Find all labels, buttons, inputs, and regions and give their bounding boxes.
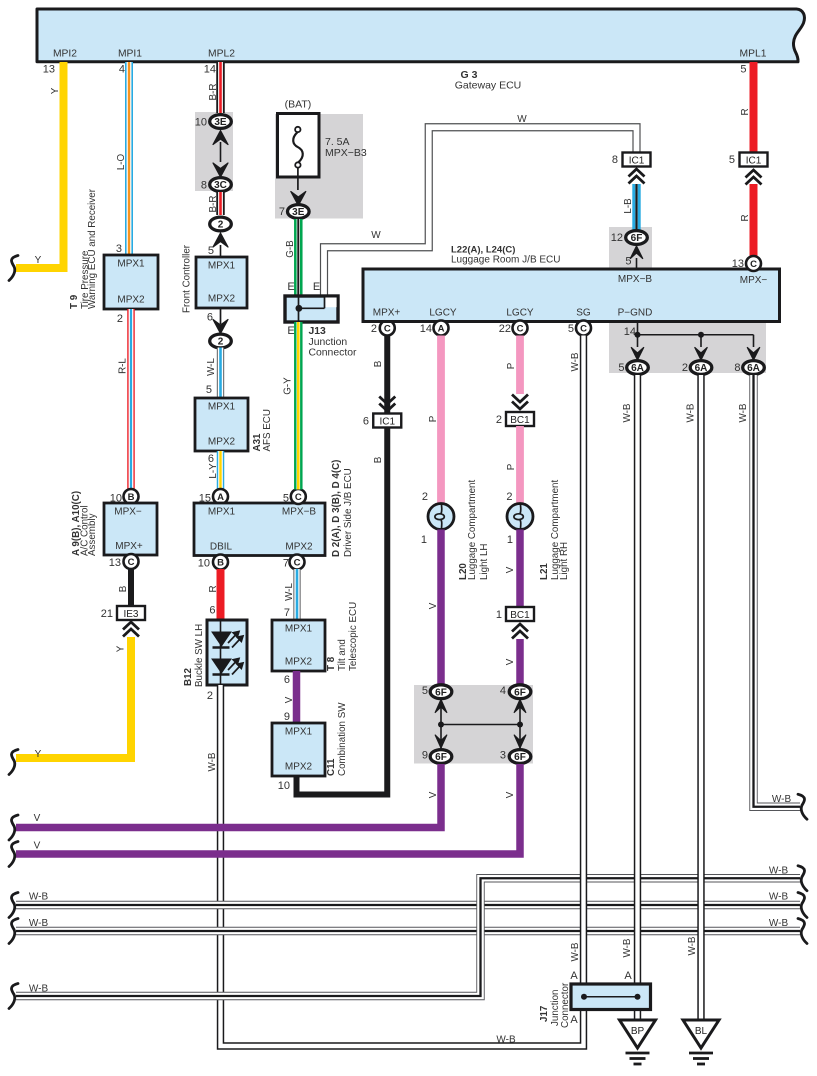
wire from fuse to connector 3E pin7 bbox=[297, 168, 299, 191]
wire R from G3 MPL1 pin5 to IC1 pin5 bbox=[750, 62, 758, 153]
lamp L20 Luggage Compartment Light LH bbox=[428, 504, 454, 530]
svg-text:2: 2 bbox=[371, 323, 377, 335]
svg-text:5: 5 bbox=[568, 323, 574, 335]
svg-text:SG: SG bbox=[576, 308, 591, 319]
svg-text:W-B: W-B bbox=[570, 942, 581, 961]
svg-text:R: R bbox=[208, 585, 219, 592]
svg-text:Luggage Room J/B ECU: Luggage Room J/B ECU bbox=[451, 255, 561, 266]
svg-text:BP: BP bbox=[631, 1026, 645, 1037]
wire W-B horizontal lower S-route bbox=[16, 878, 800, 996]
svg-text:5: 5 bbox=[283, 493, 289, 505]
svg-text:Luggage Compartment: Luggage Compartment bbox=[467, 480, 478, 580]
wire V from L21 to BC1 pin1 bbox=[516, 530, 524, 608]
svg-text:V: V bbox=[34, 841, 41, 852]
svg-text:C11: C11 bbox=[326, 758, 337, 776]
svg-text:MPX2: MPX2 bbox=[285, 542, 313, 553]
svg-text:V: V bbox=[284, 696, 295, 703]
svg-text:Assembly: Assembly bbox=[87, 513, 98, 556]
svg-text:J13: J13 bbox=[309, 326, 327, 337]
svg-text:B: B bbox=[217, 558, 224, 569]
svg-text:MPX2: MPX2 bbox=[208, 294, 236, 305]
svg-text:5: 5 bbox=[422, 685, 428, 697]
wire W-B from B12 pin2 to J17 bbox=[221, 685, 584, 1046]
svg-text:W-B: W-B bbox=[769, 892, 789, 903]
svg-text:IE3: IE3 bbox=[123, 609, 138, 620]
svg-text:10: 10 bbox=[198, 558, 210, 570]
svg-text:W-B: W-B bbox=[687, 936, 698, 955]
wire R from Driver Side J/B pin10 to B12 pin6 bbox=[217, 569, 225, 620]
svg-text:6A: 6A bbox=[695, 363, 708, 374]
svg-text:5: 5 bbox=[729, 154, 735, 166]
svg-text:V: V bbox=[505, 658, 516, 665]
svg-text:Telescopic ECU: Telescopic ECU bbox=[348, 602, 359, 671]
svg-text:Combination SW: Combination SW bbox=[337, 702, 348, 776]
wire B-R from G3 MPL2 pin14 to connector 3E bbox=[216, 62, 225, 113]
ground BP bbox=[620, 1020, 656, 1048]
wire L-Y from AFS ECU pin6 to Driver Side J/B pin15 bbox=[217, 451, 225, 490]
svg-text:P−GND: P−GND bbox=[618, 308, 653, 319]
svg-text:MPX+: MPX+ bbox=[373, 308, 401, 319]
svg-text:10: 10 bbox=[278, 780, 290, 792]
svg-text:W-B: W-B bbox=[686, 403, 697, 422]
svg-text:W-B: W-B bbox=[496, 1035, 516, 1046]
svg-text:Tilt and: Tilt and bbox=[337, 639, 348, 671]
arrow into connector 2 bbox=[213, 233, 228, 247]
lamp L21 Luggage Compartment Light RH bbox=[507, 504, 533, 530]
svg-text:Junction: Junction bbox=[309, 337, 348, 348]
svg-text:21: 21 bbox=[101, 608, 113, 620]
svg-text:5: 5 bbox=[206, 384, 212, 396]
wire W-B from 6A pin8 to right edge bbox=[754, 375, 801, 807]
svg-text:5: 5 bbox=[740, 64, 746, 76]
svg-text:MPX2: MPX2 bbox=[208, 437, 236, 448]
svg-text:7: 7 bbox=[283, 558, 289, 570]
svg-text:13: 13 bbox=[109, 557, 121, 569]
wire B-R from 3C to connector 2 bbox=[216, 192, 225, 215]
wire V horizontal to L20 chain bbox=[16, 764, 441, 828]
wire B from A/C pin13 to IE3 bbox=[128, 569, 134, 607]
svg-text:B-R: B-R bbox=[208, 84, 219, 101]
svg-text:Light LH: Light LH bbox=[479, 544, 490, 581]
svg-text:6: 6 bbox=[284, 674, 290, 686]
svg-text:2: 2 bbox=[506, 491, 512, 503]
svg-text:W: W bbox=[517, 114, 527, 125]
ECU G3 Gateway ECU top bar bbox=[37, 9, 804, 62]
svg-text:2: 2 bbox=[117, 313, 123, 325]
svg-text:C: C bbox=[128, 557, 135, 568]
svg-text:W-B: W-B bbox=[29, 918, 49, 929]
svg-text:V: V bbox=[505, 566, 516, 573]
svg-text:B: B bbox=[128, 492, 135, 503]
svg-text:3C: 3C bbox=[214, 180, 227, 191]
svg-text:G-Y: G-Y bbox=[283, 377, 294, 395]
arrow into IC1 pin8 bbox=[629, 169, 645, 177]
svg-text:3: 3 bbox=[500, 750, 506, 762]
wire G-B from 3E to J13 bbox=[294, 219, 303, 296]
svg-text:L-B: L-B bbox=[623, 198, 634, 214]
wire W-L from connector 2 to AFS ECU pin5 bbox=[217, 348, 224, 399]
svg-text:T 8: T 8 bbox=[326, 656, 337, 671]
svg-text:W-B: W-B bbox=[29, 984, 49, 995]
svg-text:W-B: W-B bbox=[772, 794, 792, 805]
gray highlight area behind connector 6F pin12 bbox=[609, 227, 652, 269]
wire W-B from 6A pin2 to BL ground bbox=[697, 375, 704, 1020]
fuse 7.5A MPX-B3 bbox=[278, 114, 320, 178]
ECU T8 Tilt and Telescopic ECU bbox=[272, 620, 325, 671]
wire W-B horizontal upper bbox=[16, 901, 800, 909]
svg-text:14: 14 bbox=[420, 323, 432, 335]
svg-text:V: V bbox=[428, 602, 439, 609]
svg-text:C: C bbox=[295, 492, 302, 503]
svg-text:MPX2: MPX2 bbox=[117, 295, 145, 306]
ECU L22(A) L24(C) Luggage Room J/B ECU bbox=[363, 269, 780, 322]
arrow into IC1 pin5 bbox=[746, 170, 762, 178]
svg-text:V: V bbox=[34, 813, 41, 824]
arrow into 6A pin5 bbox=[631, 348, 643, 361]
svg-text:7: 7 bbox=[279, 206, 285, 218]
svg-text:Buckle SW LH: Buckle SW LH bbox=[194, 624, 205, 687]
wire V from T8 pin6 to C11 pin9 bbox=[293, 671, 301, 723]
svg-text:MPL1: MPL1 bbox=[740, 49, 767, 60]
svg-text:W-B: W-B bbox=[622, 403, 633, 422]
svg-text:B: B bbox=[373, 360, 384, 367]
svg-text:2: 2 bbox=[218, 337, 224, 348]
svg-text:6: 6 bbox=[209, 605, 215, 617]
arrow into IE3 bbox=[123, 622, 139, 630]
svg-text:6F: 6F bbox=[435, 752, 447, 763]
svg-text:6F: 6F bbox=[514, 687, 526, 698]
wire V from L20 to connector 6F pin5 bbox=[437, 530, 445, 688]
svg-text:W-B: W-B bbox=[769, 918, 789, 929]
svg-text:B: B bbox=[373, 456, 384, 463]
svg-text:A: A bbox=[438, 324, 445, 335]
wire G-Y from J13 to Driver Side J/B pin5 bbox=[294, 322, 303, 490]
svg-text:IC1: IC1 bbox=[746, 155, 762, 166]
svg-text:10: 10 bbox=[195, 117, 207, 129]
svg-text:P: P bbox=[428, 415, 439, 422]
ECU A31 AFS ECU bbox=[195, 398, 248, 451]
svg-text:MPI2: MPI2 bbox=[53, 49, 77, 60]
svg-text:6: 6 bbox=[207, 312, 213, 324]
svg-text:C: C bbox=[580, 324, 587, 335]
wire L-O from G3 MPI1 pin4 to T9 pin3 bbox=[125, 62, 133, 255]
svg-text:6F: 6F bbox=[435, 687, 447, 698]
wire V from BC1 to connector 6F pin4 bbox=[516, 639, 524, 687]
svg-text:13: 13 bbox=[732, 258, 744, 270]
svg-text:P: P bbox=[506, 463, 517, 470]
wire L-B from connector 6F to IC1 pin8 bbox=[632, 184, 640, 230]
ECU D2(A) D3(B) D4(C) Driver Side J/B ECU bbox=[194, 503, 325, 556]
wire R-L from T9 pin2 to A/C Control pin10 bbox=[127, 309, 135, 490]
arrow junction 3E to 3C bbox=[213, 131, 228, 145]
svg-text:B12: B12 bbox=[183, 667, 194, 686]
ECU T9 Tire Pressure Warning ECU and Receiver bbox=[104, 255, 158, 309]
arrow into BC1 pin1 bbox=[512, 624, 528, 632]
svg-text:5: 5 bbox=[618, 362, 624, 374]
wire W-B horizontal middle bbox=[16, 927, 800, 935]
svg-text:A: A bbox=[570, 1014, 578, 1026]
svg-text:Driver Side J/B ECU: Driver Side J/B ECU bbox=[343, 468, 354, 557]
svg-text:MPX1: MPX1 bbox=[285, 624, 313, 635]
svg-text:W: W bbox=[371, 230, 381, 241]
svg-text:Warning ECU and Receiver: Warning ECU and Receiver bbox=[87, 188, 98, 309]
svg-text:MPX1: MPX1 bbox=[117, 259, 145, 270]
arrow into 6A pin8 bbox=[747, 348, 759, 361]
svg-text:MPX1: MPX1 bbox=[285, 727, 313, 738]
svg-text:9: 9 bbox=[284, 711, 290, 723]
svg-text:14: 14 bbox=[204, 64, 216, 76]
svg-text:DBIL: DBIL bbox=[210, 542, 233, 553]
svg-text:L21: L21 bbox=[539, 563, 550, 580]
svg-text:MPX−B3: MPX−B3 bbox=[325, 147, 367, 159]
svg-text:1: 1 bbox=[507, 534, 513, 546]
connector 2 lower bbox=[210, 334, 232, 348]
svg-text:MPL2: MPL2 bbox=[208, 49, 235, 60]
wire W-B from 6A pin5 to J17 and BP ground bbox=[634, 375, 641, 1020]
svg-text:1: 1 bbox=[496, 609, 502, 621]
connector 2 bbox=[210, 217, 232, 231]
svg-text:V: V bbox=[505, 791, 516, 798]
wire W from J13 to IC1 pin8 bbox=[324, 127, 637, 296]
svg-text:A: A bbox=[570, 970, 578, 982]
svg-text:W-L: W-L bbox=[206, 358, 217, 376]
svg-text:9: 9 bbox=[422, 750, 428, 762]
svg-text:MPX−: MPX− bbox=[740, 275, 768, 286]
LED 2 in B12 bbox=[212, 659, 231, 673]
junction 6F pins 5-9 bbox=[441, 699, 520, 749]
svg-text:2: 2 bbox=[207, 690, 213, 702]
svg-text:C: C bbox=[517, 324, 524, 335]
svg-text:MPX−B: MPX−B bbox=[618, 274, 653, 285]
svg-text:MPI1: MPI1 bbox=[118, 49, 142, 60]
wire W-L from Driver Side J/B pin7 to T8 pin7 bbox=[293, 569, 300, 620]
svg-text:W-B: W-B bbox=[207, 752, 218, 771]
switch C11 Combination SW bbox=[272, 723, 325, 776]
gray highlight area behind 6F lamp connectors bbox=[414, 685, 533, 764]
svg-text:6F: 6F bbox=[514, 752, 526, 763]
arrow to connector 2 lower bbox=[213, 320, 228, 334]
svg-text:D 2(A), D 3(B), D 4(C): D 2(A), D 3(B), D 4(C) bbox=[331, 460, 342, 557]
svg-text:3E: 3E bbox=[214, 117, 227, 128]
svg-text:E: E bbox=[287, 281, 294, 293]
svg-text:MPX1: MPX1 bbox=[208, 261, 236, 272]
svg-text:J17: J17 bbox=[539, 1005, 550, 1022]
svg-text:MPX1: MPX1 bbox=[208, 402, 236, 413]
svg-text:Gateway ECU: Gateway ECU bbox=[455, 80, 522, 92]
wire V horizontal to L21 chain bbox=[16, 764, 520, 854]
svg-text:P: P bbox=[506, 362, 517, 369]
arrow into BC1 pin2 bbox=[512, 395, 528, 403]
svg-text:W-B: W-B bbox=[738, 403, 749, 422]
svg-text:13: 13 bbox=[43, 64, 55, 76]
gray highlight area behind fuse MPX-B3 bbox=[275, 114, 363, 219]
svg-text:IC1: IC1 bbox=[379, 416, 395, 427]
svg-text:14: 14 bbox=[624, 326, 636, 338]
ground BL bbox=[683, 1020, 719, 1048]
junction 6F pins 4-3 bbox=[519, 699, 521, 749]
arrow into IC1 pin6 bbox=[379, 397, 395, 405]
svg-text:2: 2 bbox=[496, 414, 502, 426]
svg-text:C: C bbox=[384, 324, 391, 335]
svg-text:T 9: T 9 bbox=[69, 294, 80, 309]
svg-text:MPX−B: MPX−B bbox=[282, 507, 317, 518]
LED 1 in B12 bbox=[212, 632, 231, 646]
svg-text:C: C bbox=[294, 558, 301, 569]
svg-text:R-L: R-L bbox=[118, 358, 129, 374]
svg-text:Connector: Connector bbox=[560, 982, 571, 1028]
svg-text:BL: BL bbox=[695, 1026, 708, 1037]
svg-text:6F: 6F bbox=[631, 233, 643, 244]
svg-text:MPX2: MPX2 bbox=[285, 762, 313, 773]
svg-text:L-Y: L-Y bbox=[208, 463, 219, 479]
svg-text:LGCY: LGCY bbox=[506, 308, 534, 319]
svg-text:BC1: BC1 bbox=[510, 610, 530, 621]
wire R from IC1 to Luggage J/B MPX- pin13 bbox=[750, 184, 758, 256]
wire B from C11 pin10 to IC1 pin6 to Luggage J/B MPX+ pin2 bbox=[297, 428, 388, 795]
wire P from LGCY pin14 to L20 lamp bbox=[437, 336, 445, 504]
svg-text:2: 2 bbox=[218, 220, 224, 231]
svg-text:MPX+: MPX+ bbox=[115, 541, 143, 552]
svg-text:3: 3 bbox=[116, 243, 122, 255]
gray highlight area behind 3E/3C connectors bbox=[195, 112, 233, 191]
svg-text:2: 2 bbox=[422, 491, 428, 503]
svg-text:Y: Y bbox=[35, 749, 42, 760]
svg-text:B: B bbox=[118, 585, 129, 592]
svg-text:MPX2: MPX2 bbox=[285, 657, 313, 668]
arrow from MPX-B pin5 into 6F bbox=[630, 246, 642, 259]
svg-text:Front Controller: Front Controller bbox=[182, 244, 193, 313]
svg-text:LGCY: LGCY bbox=[429, 308, 457, 319]
svg-text:W-B: W-B bbox=[570, 352, 581, 371]
svg-text:6: 6 bbox=[208, 453, 214, 465]
svg-text:8: 8 bbox=[734, 362, 740, 374]
svg-text:G-B: G-B bbox=[285, 240, 296, 258]
svg-text:L-O: L-O bbox=[116, 153, 127, 170]
svg-text:12: 12 bbox=[611, 232, 623, 244]
ECU Front Controller bbox=[196, 257, 247, 308]
svg-text:2: 2 bbox=[682, 362, 688, 374]
svg-text:Light RH: Light RH bbox=[559, 542, 570, 580]
wire B from IC1 to MPX+ pin2 bbox=[384, 336, 390, 414]
svg-text:A: A bbox=[217, 492, 224, 503]
svg-text:W-B: W-B bbox=[29, 892, 49, 903]
ECU A9(B) A10(C) A/C Control Assembly bbox=[104, 503, 157, 555]
svg-text:W-L: W-L bbox=[284, 583, 295, 601]
wire W-B from SG pin5 to J17 bbox=[580, 336, 587, 985]
gray highlight area behind P-GND 6A connectors bbox=[609, 322, 766, 374]
svg-text:6A: 6A bbox=[631, 363, 644, 374]
arrow into 6A pin2 bbox=[695, 348, 707, 361]
svg-text:22: 22 bbox=[499, 323, 511, 335]
switch B12 Buckle SW LH bbox=[207, 620, 247, 685]
svg-text:E: E bbox=[313, 281, 320, 293]
svg-text:W-B: W-B bbox=[769, 866, 789, 877]
svg-text:B-R: B-R bbox=[208, 196, 219, 213]
wire Y from IE3 to left edge (yellow) bbox=[16, 637, 131, 758]
wire P from LGCY pin22 to BC1 bbox=[516, 336, 524, 395]
svg-text:(BAT): (BAT) bbox=[285, 99, 312, 111]
svg-text:8: 8 bbox=[201, 180, 207, 192]
svg-text:R: R bbox=[740, 108, 751, 115]
svg-text:Connector: Connector bbox=[309, 347, 357, 358]
svg-text:Y: Y bbox=[35, 255, 42, 266]
svg-text:5: 5 bbox=[208, 245, 214, 257]
svg-text:MPX−: MPX− bbox=[114, 507, 142, 518]
svg-text:C: C bbox=[750, 259, 757, 270]
svg-text:BC1: BC1 bbox=[510, 415, 530, 426]
svg-text:8: 8 bbox=[612, 154, 618, 166]
svg-text:7: 7 bbox=[284, 607, 290, 619]
svg-text:R: R bbox=[740, 214, 751, 221]
svg-text:4: 4 bbox=[119, 64, 125, 76]
svg-text:5: 5 bbox=[625, 256, 631, 268]
svg-text:6A: 6A bbox=[747, 363, 760, 374]
svg-text:1: 1 bbox=[421, 534, 427, 546]
svg-text:AFS ECU: AFS ECU bbox=[262, 409, 273, 451]
wire P from BC1 to L21 lamp bbox=[516, 426, 524, 504]
svg-text:MPX1: MPX1 bbox=[208, 507, 236, 518]
svg-text:Y: Y bbox=[116, 645, 127, 652]
svg-text:E: E bbox=[287, 325, 294, 337]
svg-text:W-B: W-B bbox=[622, 938, 633, 957]
svg-text:6: 6 bbox=[363, 416, 369, 428]
junction connector J13 bbox=[285, 296, 338, 322]
svg-text:Y: Y bbox=[50, 87, 61, 94]
svg-text:4: 4 bbox=[500, 685, 506, 697]
svg-text:A: A bbox=[624, 970, 632, 982]
wire Y from G3 MPI2 pin13 (yellow) bbox=[16, 62, 64, 268]
junction connector J17 bbox=[571, 984, 651, 1010]
svg-text:3E: 3E bbox=[292, 207, 305, 218]
svg-text:IC1: IC1 bbox=[629, 155, 645, 166]
